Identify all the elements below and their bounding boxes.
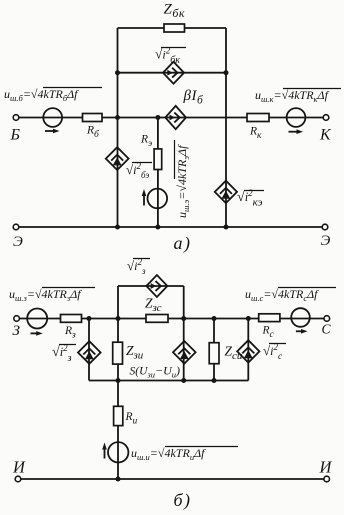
svg-text:Rб: Rб (86, 125, 100, 141)
svg-text:Zзс: Zзс (145, 296, 162, 315)
svg-text:√i2бэ: √i2бэ (126, 161, 149, 180)
svg-text:а): а) (174, 233, 192, 254)
svg-text:S(Uзи−Uи): S(Uзи−Uи) (130, 364, 180, 380)
svg-text:б): б) (174, 490, 192, 511)
svg-text:βIб: βIб (183, 88, 204, 107)
svg-text:uш.и=√4kTRиΔf: uш.и=√4kTRиΔf (131, 446, 206, 462)
svg-text:Э: Э (13, 234, 23, 250)
svg-text:И: И (319, 458, 333, 477)
svg-text:Zбк: Zбк (164, 2, 186, 21)
svg-text:√i2с: √i2с (263, 342, 282, 361)
svg-text:√i2з: √i2з (52, 343, 72, 364)
svg-text:uш.к=√4kTRкΔf: uш.к=√4kTRкΔf (255, 88, 330, 104)
svg-text:uш.с=√4kTRсΔf: uш.с=√4kTRсΔf (245, 287, 319, 303)
svg-text:К: К (319, 127, 332, 144)
svg-text:Rс: Rс (262, 325, 275, 341)
svg-text:Б: Б (10, 127, 21, 144)
svg-text:Zси: Zси (225, 344, 243, 363)
svg-text:uш.з=√4kTRзΔf: uш.з=√4kTRзΔf (9, 287, 82, 303)
svg-text:√i2з: √i2з (127, 257, 146, 276)
svg-text:С: С (322, 322, 332, 337)
svg-text:З: З (13, 323, 21, 339)
svg-text:Zзи: Zзи (126, 343, 144, 362)
svg-text:Rи: Rи (125, 411, 138, 427)
svg-text:И: И (12, 458, 26, 477)
svg-text:Rк: Rк (249, 126, 262, 142)
svg-text:√i2бк: √i2бк (155, 46, 180, 67)
svg-text:Rз: Rз (64, 325, 76, 341)
svg-text:uш.б=√4kTRбΔf: uш.б=√4kTRбΔf (4, 87, 79, 103)
svg-text:Э: Э (321, 233, 331, 249)
svg-text:uш.э=√4kTRэΔf: uш.э=√4kTRэΔf (175, 144, 191, 218)
svg-text:Rэ: Rэ (140, 134, 152, 150)
